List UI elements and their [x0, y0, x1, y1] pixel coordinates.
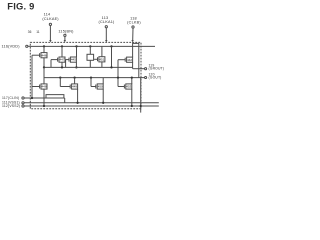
wire middle net	[44, 66, 133, 68]
svg-text:115(BN): 115(BN)	[58, 30, 74, 34]
capacitor 444	[87, 46, 94, 67]
svg-text:447: 447	[59, 58, 64, 62]
svg-text:36: 36	[28, 30, 32, 34]
svg-text:117(CLIN): 117(CLIN)	[2, 96, 19, 100]
wire GOUT drop to next stage	[140, 78, 142, 113]
terminal 120 (GOUT)	[145, 73, 162, 80]
wire GOUT net	[44, 77, 145, 79]
svg-text:112(VSS2): 112(VSS2)	[2, 104, 20, 108]
transistor 449	[60, 78, 77, 103]
node 113 (CLKA1) label	[99, 16, 115, 42]
wire vertical bus A (CLIN riser)	[31, 55, 33, 98]
svg-text:446: 446	[41, 53, 46, 57]
svg-text:(CLKB): (CLKB)	[127, 20, 141, 24]
svg-text:FIG. 9: FIG. 9	[7, 1, 34, 12]
svg-text:(GROUT): (GROUT)	[149, 66, 165, 70]
svg-text:442: 442	[127, 58, 132, 62]
svg-text:11: 11	[36, 30, 40, 34]
transistor 451	[94, 46, 105, 67]
node 115 (BN) label	[58, 30, 74, 43]
node 114 (CLKAE) label	[42, 12, 59, 42]
wire long riser	[111, 46, 113, 67]
transistor 450	[91, 78, 103, 103]
svg-text:445: 445	[71, 58, 76, 62]
terminal 111 (VSS1)	[2, 101, 159, 105]
wire gate bump	[46, 95, 64, 98]
transistor 447	[51, 46, 65, 67]
svg-text:(CLKA1): (CLKA1)	[99, 20, 115, 24]
transistor 445	[66, 46, 78, 68]
svg-text:451: 451	[99, 57, 104, 61]
svg-text:453: 453	[126, 85, 131, 89]
svg-text:450: 450	[98, 85, 103, 89]
terminal 117 (CLIN)	[2, 96, 65, 103]
terminal 116 (VDD)	[2, 45, 31, 49]
svg-text:(CLKAE): (CLKAE)	[42, 17, 59, 21]
terminal 112 (VSS2)	[2, 104, 159, 108]
wire VDD rail	[30, 45, 155, 47]
svg-text:448: 448	[41, 85, 46, 89]
node 118 (CLKB) label	[127, 16, 141, 42]
svg-text:116(VDD): 116(VDD)	[2, 45, 21, 49]
svg-text:449: 449	[72, 85, 77, 89]
transistor 446	[32, 46, 47, 67]
transistor 448	[32, 67, 47, 106]
junction dots on VDD rail	[43, 45, 45, 47]
transistor 453	[117, 76, 133, 106]
transistor 442	[118, 42, 133, 86]
wire CLKB branch	[133, 43, 139, 77]
svg-text:114: 114	[44, 12, 51, 16]
svg-text:(GOUT): (GOUT)	[149, 76, 162, 80]
dashed circuit block boundary	[30, 42, 141, 108]
terminal 119 (GROUT)	[133, 63, 164, 70]
